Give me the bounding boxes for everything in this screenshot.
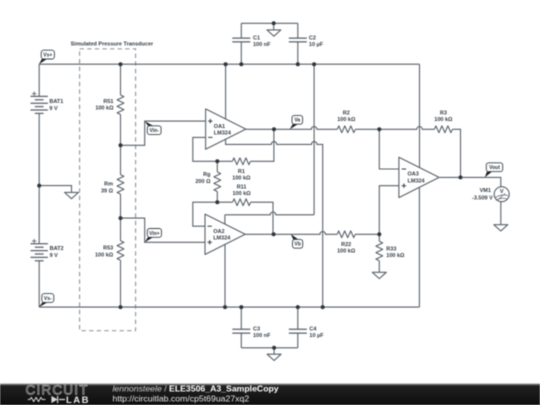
capacitor C1 100nF (232, 38, 250, 42)
svg-text:Vout: Vout (489, 165, 500, 171)
svg-text:100 kΩ: 100 kΩ (95, 106, 114, 112)
svg-text:C1: C1 (253, 36, 260, 42)
ground (R33) (372, 272, 386, 278)
svg-text:Vb: Vb (294, 242, 300, 248)
battery BAT2 (31, 239, 48, 261)
svg-text:lennonsteele / ELE3506_A3_Samp: lennonsteele / ELE3506_A3_SampleCopy (113, 384, 279, 394)
svg-text:100 nF: 100 nF (253, 42, 271, 48)
svg-text:C4: C4 (309, 327, 317, 333)
svg-text:R51: R51 (103, 99, 113, 105)
wire battery column top (38, 64, 40, 96)
svg-text:R53: R53 (103, 246, 113, 252)
resistor R11 100k (233, 199, 251, 206)
wire OA3 V+ power pin from top rail (419, 64, 421, 167)
wire R11 right to OA2 output node (251, 202, 273, 234)
resistor R1 100k (232, 158, 250, 165)
wire OA3 V- power pin to bottom rail (418, 188, 420, 308)
svg-text:Vs-: Vs- (44, 296, 52, 302)
svg-text:Vin-: Vin- (150, 128, 160, 134)
wire R2 to R3 (hop over OA3 V+ branch) (355, 127, 434, 130)
wire R33 leads (378, 234, 380, 272)
node Va flag (290, 124, 298, 129)
wire R3 right down to OA3 output node (452, 129, 460, 177)
voltmeter VM1 (494, 187, 509, 202)
wire +9V top rail (39, 63, 419, 65)
wire OA1 V- power pin to bottom rail (hops at x274, x314) (226, 140, 323, 308)
node Vin- flag (145, 121, 153, 126)
wire battery middle column (38, 113, 40, 244)
svg-text:100 kΩ: 100 kΩ (337, 117, 356, 123)
wire C3 leads (240, 307, 242, 348)
wire R53 leads (120, 218, 122, 307)
wire OA1 output to R2 (hop over power branch) (246, 127, 337, 130)
svg-text:100 kΩ: 100 kΩ (232, 175, 251, 181)
wire R22/R33 node up to OA3 + input (379, 186, 399, 235)
svg-text:OA2: OA2 (213, 229, 224, 235)
wire C1 leads (240, 23, 242, 64)
wire -9V bottom rail (39, 306, 419, 308)
svg-text:LM324: LM324 (408, 178, 426, 184)
node Vs- flag (39, 302, 48, 307)
resistor R2 100k (337, 126, 355, 133)
wire OA3 output to VM1 (440, 177, 501, 186)
svg-text:Vin+: Vin+ (149, 231, 160, 237)
wire R22 right to R33 node (355, 233, 379, 235)
wire node Vin+ to OA2 + input (121, 218, 206, 242)
wire battery midpoint to ground (39, 186, 71, 193)
wire R2/R3 node down to OA3 - input (379, 129, 399, 169)
svg-text:100 kΩ: 100 kΩ (233, 191, 252, 197)
svg-text:LM324: LM324 (214, 131, 232, 137)
battery BAT1 (31, 92, 48, 114)
svg-text:V: V (500, 189, 504, 195)
wire bottom ground stub (273, 348, 275, 354)
wire top bypass cap wire (241, 22, 297, 24)
dashed enclosure: Simulated Pressure Transducer (80, 49, 136, 331)
wire node Vin- to OA1 + input (121, 121, 206, 145)
wire R1 right to OA1 output node (250, 129, 274, 161)
svg-text:C2: C2 (309, 36, 316, 42)
wire OA2 V+ pin stub (224, 215, 226, 225)
resistor Rm 39 ohm (117, 175, 124, 195)
svg-text:R33: R33 (386, 246, 396, 252)
svg-text:200 Ω: 200 Ω (195, 179, 211, 185)
resistor R22 100k (337, 231, 355, 238)
svg-text:Rg: Rg (203, 172, 210, 178)
ground (battery midpoint) (65, 192, 79, 198)
capacitor C4 10uF (289, 329, 307, 333)
wire VM1 to ground (500, 202, 502, 225)
node junction dots (119, 62, 123, 66)
svg-text:C3: C3 (253, 327, 260, 333)
node Vb flag (291, 234, 298, 239)
op-amp OA1 LM324 (206, 109, 246, 149)
wire OA2 inverting input to R11 left (193, 202, 233, 226)
svg-text:Va: Va (294, 118, 300, 124)
resistor R3 100k (434, 126, 452, 133)
svg-text:10 µF: 10 µF (309, 42, 324, 48)
ground (bottom bypass) (267, 354, 281, 360)
resistor R51 100k (117, 95, 124, 115)
wire R51 leads (120, 64, 122, 145)
svg-text:9 V: 9 V (49, 106, 58, 112)
wire C2 leads (297, 23, 299, 64)
svg-text:BAT2: BAT2 (50, 246, 64, 252)
svg-text:Rm: Rm (104, 182, 113, 188)
svg-text:R2: R2 (343, 111, 350, 117)
wire OA1 inverting input to R1 left (193, 137, 233, 161)
svg-text:-3.509 V: -3.509 V (472, 196, 493, 202)
capacitor C3 100nF (232, 329, 250, 333)
node Vs+ flag (39, 59, 47, 64)
wire OA1 V+ power pin (225, 64, 227, 119)
svg-text:10 µF: 10 µF (309, 333, 324, 339)
wire Rm leads (120, 145, 122, 218)
wire OA2 output to R22 (hop over OA1 V- branch) (245, 232, 338, 235)
wire Rg leads (216, 161, 218, 202)
svg-text:BAT1: BAT1 (49, 99, 63, 105)
svg-text:R11: R11 (237, 184, 247, 190)
resistor R53 100k (117, 241, 124, 261)
svg-text:100 kΩ: 100 kΩ (95, 252, 114, 258)
op-amp OA2 LM324 (205, 214, 245, 254)
svg-text:9 V: 9 V (50, 253, 59, 259)
svg-text:Simulated Pressure Transducer: Simulated Pressure Transducer (71, 41, 154, 47)
svg-text:OA3: OA3 (408, 172, 419, 178)
wire +9V branch to OA2 V+ pin (hop over R11 leg) (313, 64, 315, 215)
svg-text:100 kΩ: 100 kΩ (434, 117, 453, 123)
ground (VM1) (494, 225, 508, 231)
wire top ground stub (273, 23, 275, 30)
wire C4 leads (297, 307, 299, 348)
svg-text:R3: R3 (440, 111, 447, 117)
wire bottom bypass cap wire (241, 347, 297, 349)
wire battery bottom column (38, 261, 40, 307)
ground (top bypass) (267, 30, 281, 36)
resistor Rg 200 ohm (214, 172, 221, 192)
svg-text:http://circuitlab.com/cp5t69ua: http://circuitlab.com/cp5t69ua27xq2 (113, 394, 250, 404)
node Vin+ flag (145, 237, 153, 242)
resistor R33 100k (376, 241, 383, 261)
footer bar (0, 385, 540, 405)
svg-text:OA1: OA1 (214, 124, 225, 130)
node Vout flag (485, 172, 492, 178)
svg-text:R22: R22 (341, 242, 351, 248)
svg-text:100 nF: 100 nF (253, 333, 271, 339)
capacitor C2 10uF (289, 38, 307, 42)
svg-text:Vs+: Vs+ (43, 53, 52, 59)
svg-text:LAB: LAB (66, 395, 90, 405)
svg-text:LM324: LM324 (213, 236, 231, 242)
svg-text:39 Ω: 39 Ω (101, 188, 114, 194)
svg-text:100 kΩ: 100 kΩ (386, 253, 405, 259)
svg-text:VM1: VM1 (480, 188, 491, 194)
svg-text:100 kΩ: 100 kΩ (337, 248, 356, 254)
wire OA2 V- power pin to bottom rail (224, 245, 226, 308)
svg-text:R1: R1 (238, 169, 245, 175)
op-amp OA3 LM324 (399, 157, 439, 197)
